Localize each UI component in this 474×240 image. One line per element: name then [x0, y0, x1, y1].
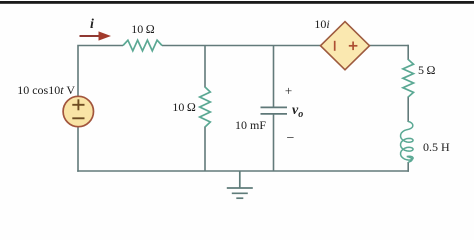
- page top rule: [0, 1, 474, 4]
- current arrow i: [80, 35, 102, 37]
- wire right vertical mid: [407, 97, 409, 123]
- resistor R3 5ohm right zigzag: [403, 60, 414, 98]
- label 10ohm middle: [162, 100, 196, 115]
- label 10i: [302, 17, 342, 32]
- label i: [84, 17, 100, 33]
- wire capacitor branch upper: [273, 46, 275, 108]
- wire top-left segment: [78, 46, 123, 97]
- wire capacitor branch lower: [273, 114, 275, 171]
- wire right vertical upper: [407, 45, 409, 60]
- wire top middle segment: [162, 45, 321, 47]
- wire left vertical lower: [77, 127, 79, 172]
- label source value: [0, 83, 75, 98]
- wire middle branch upper: [204, 46, 206, 88]
- label 5ohm: [418, 63, 448, 78]
- voltage source VS circle: [63, 96, 93, 126]
- capacitor C1 top plate: [261, 106, 288, 108]
- label 0.5H: [423, 140, 463, 155]
- wire right vertical lower: [407, 162, 409, 172]
- dependent source D1 diamond: [321, 22, 370, 70]
- capacitor minus label: [283, 131, 298, 147]
- wire middle branch lower: [204, 127, 206, 172]
- resistor R1 10ohm top zigzag: [123, 40, 162, 51]
- dependent source plus sign: [349, 42, 358, 51]
- voltage source plus sign: [72, 99, 84, 110]
- wire top right segment: [370, 45, 409, 47]
- label vo: [292, 103, 303, 120]
- inductor L1 0.5H coil: [401, 122, 413, 163]
- capacitor C1 bottom plate: [261, 113, 288, 115]
- label 10mF: [226, 118, 266, 133]
- wire bottom: [77, 170, 409, 172]
- ground symbol: [227, 171, 253, 198]
- capacitor plus label: [281, 83, 296, 99]
- dependent source minus bar: [334, 41, 336, 51]
- label 10ohm top: [123, 22, 163, 37]
- voltage source minus sign: [72, 117, 84, 119]
- resistor R2 10ohm middle zigzag: [200, 87, 211, 127]
